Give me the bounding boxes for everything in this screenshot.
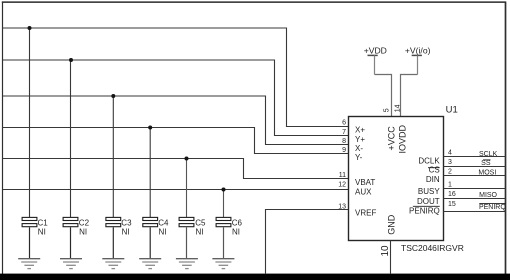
svg-text:CS: CS bbox=[429, 166, 440, 175]
svg-text:TSC2046IRGVR: TSC2046IRGVR bbox=[401, 243, 464, 253]
wire pin 3 SS bbox=[444, 166, 506, 168]
svg-text:VREF: VREF bbox=[355, 209, 376, 218]
svg-text:PENIRQ: PENIRQ bbox=[409, 206, 440, 215]
svg-text:U1: U1 bbox=[446, 105, 458, 116]
svg-text:12: 12 bbox=[338, 182, 346, 189]
svg-text:C1: C1 bbox=[38, 219, 49, 228]
svg-text:3: 3 bbox=[448, 159, 452, 166]
svg-text:Y-: Y- bbox=[355, 153, 363, 162]
svg-text:DOUT: DOUT bbox=[417, 197, 440, 206]
svg-text:8: 8 bbox=[342, 138, 346, 145]
svg-text:NI: NI bbox=[122, 228, 130, 237]
ground under C1 bbox=[18, 259, 40, 269]
svg-text:11: 11 bbox=[339, 172, 346, 179]
svg-text:NI: NI bbox=[196, 228, 204, 237]
capacitor C4 bbox=[143, 217, 169, 258]
pin 10 GND wire bbox=[390, 241, 392, 274]
wire +V(i/o) to pin 14 bbox=[401, 75, 418, 117]
wire C1 column bbox=[29, 28, 31, 217]
wire net Y- to pin 9 bbox=[3, 128, 349, 154]
wire net VBAT to pin 11 bbox=[3, 159, 349, 179]
wire pin 1 BUSY bbox=[444, 188, 506, 190]
ground under C6 bbox=[212, 259, 234, 269]
svg-text:13: 13 bbox=[338, 203, 346, 210]
svg-text:C5: C5 bbox=[195, 219, 206, 228]
svg-text:15: 15 bbox=[448, 201, 456, 208]
svg-text:+VDD: +VDD bbox=[364, 45, 387, 55]
node junction C3/X- bbox=[111, 94, 115, 98]
ground under C2 bbox=[60, 259, 82, 269]
svg-text:NI: NI bbox=[232, 228, 240, 237]
svg-text:X+: X+ bbox=[355, 126, 365, 135]
power +V(i/o) bbox=[405, 45, 431, 74]
wire C4 column bbox=[149, 128, 151, 218]
wire pin 16 MISO bbox=[444, 198, 506, 200]
svg-text:10: 10 bbox=[380, 245, 391, 257]
wire C6 column bbox=[223, 190, 225, 218]
svg-text:C3: C3 bbox=[121, 219, 132, 228]
svg-text:BUSY: BUSY bbox=[418, 187, 440, 196]
svg-text:9: 9 bbox=[342, 147, 346, 154]
ground under C5 bbox=[176, 259, 198, 269]
svg-text:MISO: MISO bbox=[479, 192, 497, 199]
svg-text:C4: C4 bbox=[158, 219, 169, 228]
svg-text:DIN: DIN bbox=[426, 175, 440, 184]
wire net VREF pin 13 down to bottom bbox=[266, 210, 349, 274]
svg-text:4: 4 bbox=[448, 150, 452, 157]
capacitor C1 bbox=[22, 217, 48, 258]
node junction C4/Y- bbox=[148, 126, 152, 130]
node junction C6/AUX bbox=[222, 188, 226, 192]
wire C3 column bbox=[112, 96, 114, 217]
node junction C1/X+ bbox=[28, 26, 32, 30]
svg-text:5: 5 bbox=[384, 108, 391, 112]
power +VDD bbox=[364, 45, 387, 74]
op IC U1 box bbox=[349, 117, 444, 241]
svg-text:NI: NI bbox=[38, 228, 46, 237]
wire net X+ to pin 6 bbox=[3, 28, 349, 127]
wire +VDD to pin 5 bbox=[375, 75, 392, 117]
svg-text:X-: X- bbox=[355, 144, 363, 153]
svg-text:NI: NI bbox=[159, 228, 167, 237]
svg-text:C6: C6 bbox=[232, 219, 243, 228]
svg-text:AUX: AUX bbox=[355, 188, 372, 197]
svg-text:PENIRQ: PENIRQ bbox=[479, 204, 506, 211]
svg-text:16: 16 bbox=[448, 191, 456, 198]
svg-text:7: 7 bbox=[342, 129, 346, 136]
capacitor C2 bbox=[63, 217, 89, 258]
svg-text:6: 6 bbox=[342, 120, 346, 127]
svg-text:GND: GND bbox=[386, 214, 396, 235]
svg-text:SCLK: SCLK bbox=[479, 151, 498, 158]
wire pin 4 SCLK bbox=[444, 156, 506, 158]
svg-text:NI: NI bbox=[79, 228, 87, 237]
node junction C5/VBAT bbox=[185, 157, 189, 161]
ground under C3 bbox=[102, 259, 124, 269]
ground under C4 bbox=[139, 259, 161, 269]
svg-text:+VCC: +VCC bbox=[386, 126, 396, 151]
svg-text:14: 14 bbox=[395, 104, 402, 112]
capacitor C3 bbox=[106, 217, 132, 258]
svg-text:1: 1 bbox=[448, 182, 452, 189]
svg-text:VBAT: VBAT bbox=[355, 178, 375, 187]
wire C2 column bbox=[70, 60, 72, 217]
svg-text:C2: C2 bbox=[79, 219, 90, 228]
wire pin 2 MOSI bbox=[444, 175, 506, 177]
svg-text:SS: SS bbox=[481, 160, 491, 167]
wire pin 15 PENIRQ bbox=[444, 211, 506, 213]
svg-text:DCLK: DCLK bbox=[418, 156, 440, 165]
svg-text:MOSI: MOSI bbox=[478, 170, 496, 177]
wire net AUX to pin 12 bbox=[3, 189, 349, 191]
svg-text:+V(i/o): +V(i/o) bbox=[405, 45, 431, 55]
node junction C2/Y+ bbox=[69, 58, 73, 62]
svg-text:Y+: Y+ bbox=[355, 135, 365, 144]
capacitor C5 bbox=[179, 217, 206, 258]
capacitor C6 bbox=[216, 217, 242, 258]
wire net Y+ to pin 7 bbox=[3, 60, 349, 136]
svg-text:IOVDD: IOVDD bbox=[397, 124, 407, 153]
wire net X- to pin 8 bbox=[3, 96, 349, 145]
svg-text:2: 2 bbox=[448, 169, 452, 176]
wire C5 column bbox=[186, 159, 188, 218]
